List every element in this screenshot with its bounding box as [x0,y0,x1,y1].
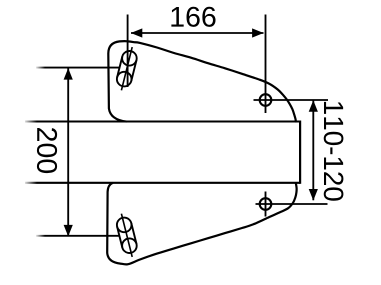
dim 110-120: bottom arrowhead [309,189,318,201]
band line left fade bottom [23,179,37,186]
slot hole top: tangent line b [131,60,136,81]
slot hole bottom: tangent line a [117,227,122,248]
hole bottom right: horizontal centerline / 110-120 bottom extension [256,203,328,205]
dim 110-120: top arrowhead [309,100,318,112]
bracket bottom outline [107,183,296,264]
bracket top outline [108,41,295,121]
dim 200: dimension line [67,68,69,236]
dim 200: bottom arrowhead [64,225,73,237]
slot hole top: axis centerline [121,47,132,90]
beam band top line [25,120,300,122]
ext line left fade top [35,64,45,71]
band line left fade top [23,118,37,125]
slot hole bottom: axis centerline [121,214,132,257]
dim 166: label [171,7,215,27]
slot hole bottom: circle 2 [122,238,137,253]
ext line left fade bottom [35,232,45,239]
dim 166: left arrowhead [131,28,143,37]
hole top right: vertical centerline / 166 right extension [265,15,267,114]
dim 110-120: label (rotated) [324,102,344,201]
hole top right: horizontal centerline / 110-120 top extension [254,99,329,101]
dim 110-120: dimension line [312,100,314,200]
beam band bottom line [25,182,300,184]
dim 166: left extension line [127,15,129,88]
slot hole bottom: tangent line b [131,223,136,244]
dim 200: top extension line [36,67,119,69]
beam band fill [25,123,299,182]
dim 200: label (rotated) [37,128,57,173]
hole bottom right [260,198,272,210]
hole top right [260,94,272,106]
hole bottom right: vertical centerline [265,192,267,217]
beam band right edge [299,121,301,184]
slot hole top: tangent line a [117,57,122,78]
slot hole bottom: circle 1 [117,218,132,233]
slot hole top: circle 1 [122,51,137,66]
dim 166: dimension line [131,32,264,34]
slot hole top: circle 2 [117,72,132,87]
dim 200: bottom extension line [36,235,119,237]
dim 166: right arrowhead [252,28,264,37]
dim 200: top arrowhead [64,68,73,80]
